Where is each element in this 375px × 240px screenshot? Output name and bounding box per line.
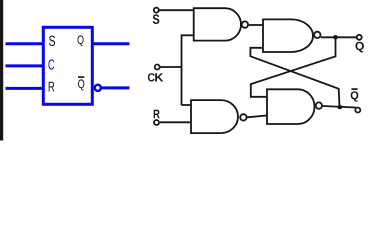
- wire Q node cross-coupling to U5 input: [251, 37, 336, 97]
- wire R to gate U3: [160, 121, 192, 123]
- wire R input: [6, 87, 44, 90]
- left table border bar: [0, 0, 3, 141]
- NAND gate U4 (top-right): [263, 19, 313, 52]
- terminal S: [154, 8, 159, 13]
- bubble U5: [316, 102, 322, 108]
- label Qbar: [351, 91, 359, 102]
- wire C input: [6, 64, 44, 67]
- overbar of label Qbar: [351, 88, 357, 90]
- terminal Qbar: [355, 108, 360, 113]
- bubble U4: [314, 32, 320, 38]
- wire CK to U3 upper input: [182, 104, 192, 106]
- terminal Q: [357, 35, 362, 40]
- NAND gate U2 (top-left): [194, 8, 241, 40]
- junction node Q: [333, 35, 338, 40]
- pin label Qbar: [78, 79, 84, 90]
- wire Qbar output: [102, 86, 130, 89]
- terminal R: [154, 120, 159, 125]
- pin label C: [48, 59, 54, 69]
- flip-flop box U1: [43, 27, 92, 104]
- label CK: [148, 73, 155, 81]
- wire S input: [6, 42, 44, 45]
- wire U4 output to Q terminal: [321, 36, 357, 38]
- NAND gate U5 (bottom-right): [267, 89, 315, 124]
- wire Qbar node cross-coupling to U4 input: [250, 48, 339, 107]
- inversion bubble on Qbar: [95, 85, 101, 91]
- wire U2 output to U4: [249, 24, 264, 26]
- pin label R: [49, 82, 55, 92]
- bubble U2: [242, 21, 248, 27]
- label Q: [355, 42, 364, 53]
- wire CK to U2 lower input: [182, 34, 195, 36]
- terminal CK: [155, 65, 160, 70]
- label S: [153, 14, 160, 24]
- wire CK to branch: [161, 66, 183, 68]
- overbar of Qbar pin: [78, 76, 84, 78]
- wire U5 output to Qbar terminal: [323, 106, 356, 108]
- wire S to gate U2: [160, 9, 195, 11]
- label R: [154, 110, 160, 119]
- wire CK vertical branch: [181, 34, 183, 105]
- junction node Qbar: [338, 105, 343, 110]
- wire Q output: [92, 42, 130, 45]
- bubble U3: [240, 114, 246, 120]
- wire U3 output to U5: [247, 115, 267, 117]
- NAND gate U3 (bottom-left): [191, 100, 238, 133]
- pin label Q: [78, 35, 84, 46]
- pin label S: [49, 36, 55, 46]
